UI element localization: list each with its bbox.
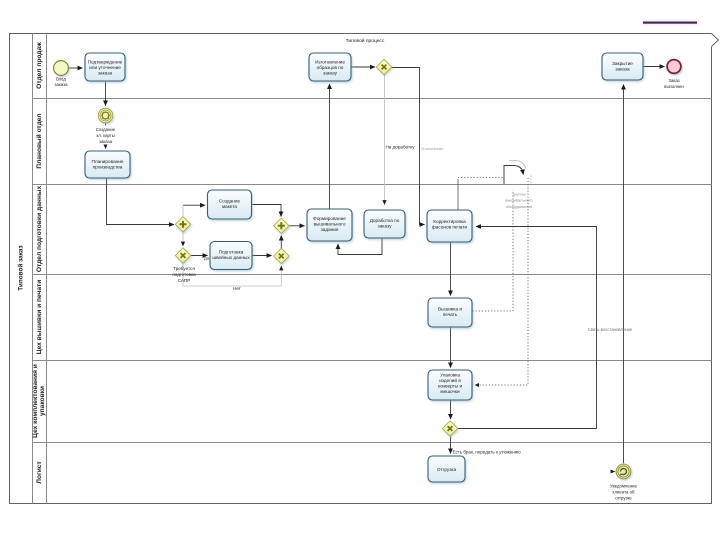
task T2 изготовление образцов [309, 53, 351, 81]
svg-text:вышивального: вышивального [314, 222, 346, 227]
svg-text:Упаковка: Упаковка [440, 373, 460, 378]
wire G3 to T6 [289, 225, 305, 227]
wire event to T3 [105, 123, 107, 148]
svg-text:группы: группы [513, 192, 526, 197]
label intermediate event [96, 126, 116, 145]
message flow T8 top [457, 179, 459, 210]
svg-text:заказа: заказа [615, 67, 630, 72]
svg-text:задания: задания [321, 227, 339, 232]
svg-text:выполнен: выполнен [664, 84, 684, 89]
task T3 планирование производства [85, 151, 130, 178]
task T1 подтверждение заказа [85, 53, 125, 81]
svg-text:образцов по: образцов по [317, 65, 344, 70]
wire G4 to G3 [280, 236, 282, 250]
svg-text:макета: макета [222, 204, 237, 209]
message flow T10 to group [473, 190, 514, 311]
gateway G2 exclusive [175, 248, 190, 263]
lane label 5 [32, 364, 46, 438]
svg-text:заказа: заказа [98, 71, 113, 76]
lane divider 2 [33, 184, 712, 186]
svg-text:Отдел продаж: Отдел продаж [36, 42, 43, 89]
wire T10 to T11 [450, 327, 452, 367]
task T6 формирование задания [307, 209, 352, 241]
svg-text:Уведомление: Уведомление [610, 484, 638, 489]
wire T3 to G1 [107, 178, 175, 224]
svg-text:Типовой процесс: Типовой процесс [346, 37, 385, 44]
gateway G3 parallel [274, 218, 289, 233]
gateway G5 exclusive [376, 59, 391, 74]
svg-text:конверты и: конверты и [438, 384, 463, 389]
svg-text:подготовка: подготовка [172, 272, 196, 277]
svg-text:Подготовка: Подготовка [219, 250, 244, 255]
svg-text:Создание: Создание [96, 127, 116, 132]
wire G5 rework to T7 (faint) [183, 75, 385, 286]
task T11 упаковка [428, 370, 472, 400]
wire start to T1 [69, 67, 83, 69]
svg-text:Да: Да [204, 256, 210, 261]
gateway G1 parallel [175, 217, 190, 232]
svg-text:Изготовление: Изготовление [315, 60, 345, 65]
wire T9 to end [643, 66, 664, 68]
wire G5 to T8 [392, 68, 425, 225]
start event [54, 61, 69, 76]
svg-text:фасонов печати: фасонов печати [432, 225, 468, 230]
svg-text:клиента об: клиента об [613, 490, 635, 495]
wire T4 to G3 [252, 205, 281, 217]
svg-text:На доработку: На доработку [385, 145, 415, 150]
svg-text:Закрытие: Закрытие [612, 61, 633, 66]
svg-text:заказа: заказа [54, 82, 68, 87]
label G2 требуется подготовка [172, 266, 196, 283]
svg-text:Планирование: Планирование [92, 159, 124, 164]
svg-text:заказу: заказу [378, 224, 393, 229]
decorative purple accent line [641, 19, 699, 26]
svg-text:или уточнение: или уточнение [89, 65, 121, 70]
svg-text:Требуется: Требуется [173, 266, 195, 271]
svg-text:изделий в: изделий в [439, 377, 461, 383]
svg-text:Плановый отдел: Плановый отдел [35, 113, 43, 168]
wire G1 to G2 [182, 232, 184, 246]
svg-text:Типовой заказ: Типовой заказ [17, 245, 25, 290]
task T12 отгрузка [428, 456, 465, 482]
svg-text:Вход: Вход [56, 77, 66, 82]
wire T8 to T10 [450, 242, 452, 295]
svg-text:Цех вышивки и печати: Цех вышивки и печати [36, 280, 43, 355]
svg-text:оборудования: оборудования [506, 204, 532, 209]
svg-text:Отдел подготовки данных: Отдел подготовки данных [36, 186, 43, 273]
svg-text:эл. карты: эл. карты [96, 133, 115, 138]
svg-text:Нет: Нет [233, 286, 242, 291]
svg-text:САПР: САПР [178, 278, 191, 283]
end event [667, 60, 681, 74]
svg-text:Заказ: Заказ [668, 78, 679, 83]
task T4 создание макета [208, 190, 252, 219]
pool corner chevron [712, 34, 719, 47]
lane title divider [46, 34, 48, 504]
message flow stub [530, 176, 532, 185]
wire G6 to T12 [450, 436, 452, 453]
wire T6 to T2 [329, 84, 331, 209]
wire E4 to T9 [623, 85, 625, 464]
lane divider 3 [33, 274, 712, 276]
svg-text:Подтверждение: Подтверждение [88, 60, 123, 65]
label gruppa [505, 192, 533, 210]
svg-text:Доработка по: Доработка по [370, 218, 400, 223]
wire T7 loop to T6 [338, 238, 382, 254]
wire cluster elbow [504, 166, 523, 185]
wire T5 to G4 [252, 255, 272, 257]
wire T1 to intermediate event [105, 81, 107, 105]
task T10 вышивка и печать [428, 298, 472, 327]
svg-text:упаковки: упаковки [39, 386, 46, 416]
task T9 закрытие заказа [602, 53, 643, 80]
wire cluster elbow ghost [509, 161, 526, 169]
gateway G6 exclusive [442, 421, 457, 436]
svg-text:Отклонения: Отклонения [421, 146, 443, 151]
lane divider 5 [33, 442, 712, 444]
notify event E4 [616, 464, 631, 479]
svg-text:заказа: заказа [99, 139, 113, 144]
svg-text:Логист: Логист [36, 461, 43, 484]
svg-text:мешочки: мешочки [440, 389, 460, 394]
task T5 подготовка данных [210, 242, 252, 270]
svg-text:вышивального: вышивального [505, 198, 533, 203]
wire G1 to T4 [183, 204, 205, 206]
svg-text:швейных данных: швейных данных [212, 254, 250, 260]
svg-text:печать: печать [443, 312, 458, 317]
svg-text:заказу: заказу [323, 71, 338, 76]
svg-text:Цех комплектования и: Цех комплектования и [32, 364, 39, 438]
svg-text:Вышивка и: Вышивка и [438, 307, 462, 312]
svg-text:Есть брак, передать к утюжению: Есть брак, передать к утюжению [453, 450, 522, 455]
pool title divider [32, 34, 34, 504]
floating arrowhead into E4 [611, 470, 616, 474]
wire G2 no-branch to G4 (faint) [183, 263, 281, 286]
task T7 доработка [364, 210, 405, 238]
label E4 [610, 484, 638, 501]
svg-text:Связь-восстановление: Связь-восстановление [588, 327, 633, 332]
svg-text:отгрузке: отгрузке [615, 496, 632, 501]
wire G6 brak loop to T8 [458, 227, 597, 429]
wire T11 to G6 [450, 400, 452, 419]
lane divider 1 [33, 98, 712, 100]
svg-text:Создание: Создание [219, 199, 241, 204]
svg-text:Формирование: Формирование [313, 216, 346, 221]
task T8 корректировка [427, 210, 472, 242]
svg-text:Отгрузка: Отгрузка [437, 467, 457, 472]
intermediate event: создание эл. карты [98, 108, 113, 123]
label end event [664, 78, 684, 89]
svg-text:производства: производства [93, 165, 123, 170]
wire T2 to G5 [351, 66, 375, 68]
label start event [54, 77, 68, 88]
gateway G4 exclusive [274, 248, 289, 263]
message flow group to T11 [475, 178, 528, 385]
wire G2 to T5 [191, 255, 208, 257]
svg-text:Корректировка: Корректировка [433, 219, 466, 224]
lane divider 4 [33, 360, 712, 362]
